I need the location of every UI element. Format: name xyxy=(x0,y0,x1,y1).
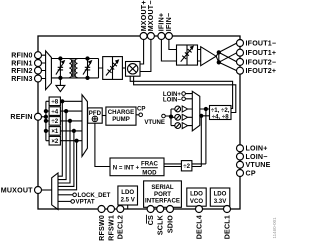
pin CS xyxy=(147,206,154,213)
pin RFIN2 xyxy=(35,67,42,74)
svg-text:MOD: MOD xyxy=(142,169,157,176)
N counter box xyxy=(110,158,164,176)
svg-text:DECL1: DECL1 xyxy=(223,215,231,239)
wire LO mux outputs xyxy=(200,109,210,116)
svg-text:VPTAT: VPTAT xyxy=(76,199,95,206)
svg-text:LOIN−: LOIN− xyxy=(163,97,182,104)
wire div2 to taps xyxy=(192,164,206,167)
wire CP stub xyxy=(136,114,139,116)
wire REFIN lead xyxy=(41,116,46,118)
node dots LO out xyxy=(204,107,208,111)
svg-text:DECL2: DECL2 xyxy=(117,215,125,239)
wire PFD to charge pump xyxy=(102,115,106,117)
svg-text:IFOUT1−: IFOUT1− xyxy=(246,39,277,47)
svg-text:MXOUT−: MXOUT− xyxy=(147,0,155,31)
wire IFIN+ to IF VGA xyxy=(161,39,176,61)
node VTUNE xyxy=(162,114,166,118)
IF VGA A2 xyxy=(177,45,198,65)
svg-text:SDIO: SDIO xyxy=(166,215,174,233)
node CP xyxy=(139,113,143,117)
svg-text:RFSW1: RFSW1 xyxy=(107,215,115,241)
wire PFD feedback xyxy=(95,123,110,166)
node amp out+ xyxy=(217,50,221,54)
wire VTUNE to VCO bus xyxy=(165,109,175,126)
wire amp outputs xyxy=(216,52,219,62)
pin DECL4 xyxy=(196,206,203,213)
op-amp VCO buffer B1 xyxy=(182,106,187,112)
wire mixer to MXOUT+ xyxy=(140,39,144,64)
svg-text:VTUNE: VTUNE xyxy=(144,119,165,126)
charge pump U3 xyxy=(106,107,136,125)
pin DECL2 xyxy=(117,206,124,213)
transformer T1 (balun) xyxy=(69,59,77,78)
wire A1 to mixer xyxy=(122,67,125,69)
svg-text:÷4, ÷8: ÷4, ÷8 xyxy=(212,113,229,120)
LDO VCO box xyxy=(187,188,206,206)
svg-text:IFOUT2−: IFOUT2− xyxy=(246,58,277,66)
node LOIN+ stub xyxy=(182,92,186,96)
svg-text:LOIN+: LOIN+ xyxy=(246,145,268,153)
node dots taps xyxy=(60,99,64,103)
svg-text:SCLK: SCLK xyxy=(157,214,165,235)
varactor shunt VC2 xyxy=(83,59,90,78)
node amp out- xyxy=(217,60,221,64)
svg-text:MUXOUT: MUXOUT xyxy=(1,186,33,194)
LDO 2.5V box xyxy=(118,186,138,205)
wire IFOUT crossover xyxy=(219,43,237,71)
pin IFOUT2- xyxy=(237,58,244,65)
ground xyxy=(56,78,65,92)
wire muxout xyxy=(41,189,52,191)
oscillator VCO2 xyxy=(175,114,181,120)
node dots VC1 xyxy=(58,56,62,60)
chip outline xyxy=(38,36,240,209)
wire N to div2 xyxy=(164,164,181,167)
multiplier x2 box xyxy=(49,136,60,145)
node LOCK_DET stub xyxy=(73,193,77,197)
svg-text:×2: ×2 xyxy=(51,138,59,145)
svg-text:2.5 V: 2.5 V xyxy=(121,196,136,203)
pin LOIN+ xyxy=(237,145,244,152)
ref select mux SW2 xyxy=(82,95,87,157)
svg-text:CHARGE: CHARGE xyxy=(108,109,134,116)
divider /2 box xyxy=(181,161,192,171)
svg-text:LDO: LDO xyxy=(121,189,134,196)
varactor shunt VC1 xyxy=(56,59,63,78)
wire monitor taps to muxout mux xyxy=(58,101,77,190)
multiplier x1 box xyxy=(49,127,60,136)
node LOIN- stub xyxy=(182,97,186,101)
svg-text:N = INT +: N = INT + xyxy=(113,165,140,172)
svg-text:IFOUT2+: IFOUT2+ xyxy=(246,67,277,75)
pin MXOUT- xyxy=(147,33,154,40)
divider /2 box xyxy=(49,117,60,126)
svg-text:IFIN−: IFIN− xyxy=(165,13,173,32)
RF input switch SW1 xyxy=(46,51,52,90)
svg-text:11460-001: 11460-001 xyxy=(272,217,277,239)
divider /4 box xyxy=(49,107,60,116)
node VPTAT stub xyxy=(71,200,75,204)
op-amp VCO buffer B3 xyxy=(182,123,187,129)
svg-text:RFSW0: RFSW0 xyxy=(98,215,106,241)
svg-text:RFIN3: RFIN3 xyxy=(11,75,33,83)
pin MXOUT+ xyxy=(140,33,147,40)
overline CS xyxy=(146,215,148,224)
pin RFSW1 xyxy=(108,206,115,213)
svg-text:÷4: ÷4 xyxy=(51,108,58,115)
pin IFIN+ xyxy=(158,33,165,40)
svg-text:RFIN0: RFIN0 xyxy=(11,52,33,60)
node dots VC2 xyxy=(85,56,89,60)
pin RFIN3 xyxy=(35,75,42,82)
svg-text:RFIN2: RFIN2 xyxy=(11,67,33,75)
wire buffers to LO mux xyxy=(188,109,193,126)
wire RF differential rails xyxy=(51,59,102,78)
wire RFIN pin leads xyxy=(41,55,45,78)
svg-text:÷8: ÷8 xyxy=(51,99,58,106)
pin SCLK xyxy=(157,206,164,213)
pin CP xyxy=(237,170,244,177)
svg-text:LDO: LDO xyxy=(190,191,203,198)
wire reference input bus xyxy=(46,101,49,140)
svg-text:CP: CP xyxy=(137,106,145,113)
pin MUXOUT xyxy=(35,187,42,194)
op-amp VCO buffer B2 xyxy=(182,114,187,120)
svg-text:VCO: VCO xyxy=(190,198,203,205)
svg-text:CS: CS xyxy=(147,215,155,225)
svg-text:DECL4: DECL4 xyxy=(195,215,203,239)
node dots ref bus xyxy=(44,109,48,113)
monitor mux SW4 xyxy=(52,173,58,210)
oscillator VCO3 xyxy=(175,123,181,129)
wire VGA to amp xyxy=(198,50,201,62)
serial port interface box xyxy=(144,181,182,207)
LO divider box xyxy=(210,106,232,120)
svg-text:REFIN: REFIN xyxy=(10,113,32,121)
pin DECL1 xyxy=(224,206,231,213)
svg-text:÷2: ÷2 xyxy=(183,163,190,170)
wire feedback taps down xyxy=(201,109,206,167)
oscillator VCO1 xyxy=(175,106,181,112)
svg-text:×1: ×1 xyxy=(51,128,59,135)
pin RFIN1 xyxy=(35,60,42,67)
PFD U2 xyxy=(88,108,103,123)
wire mixer to MXOUT- xyxy=(140,39,151,71)
svg-text:INTERFACE: INTERFACE xyxy=(145,198,180,205)
wire LO drive pair to mixer xyxy=(130,76,236,112)
pin RFSW0 xyxy=(98,206,105,213)
mixer M1 xyxy=(126,62,141,77)
wire ref outputs to mux xyxy=(60,101,82,140)
pin VTUNE xyxy=(237,161,244,168)
RF attenuator A1 xyxy=(103,57,123,80)
LDO 3.3V box xyxy=(210,188,230,206)
op-amp IF buffer U1 xyxy=(201,47,216,66)
pin SDIO xyxy=(167,206,174,213)
pin IFOUT1+ xyxy=(237,49,244,56)
pin IFOUT1- xyxy=(237,40,244,47)
LO select mux SW3 xyxy=(192,91,200,131)
svg-text:3.3V: 3.3V xyxy=(214,198,227,205)
pin IFIN- xyxy=(165,33,172,40)
svg-text:LDO: LDO xyxy=(214,191,227,198)
svg-text:FRAC: FRAC xyxy=(141,161,159,168)
svg-text:VTUNE: VTUNE xyxy=(246,161,271,169)
pin IFOUT2+ xyxy=(237,67,244,74)
pin RFIN0 xyxy=(35,52,42,59)
wire LOIN stubs to mux xyxy=(185,94,192,99)
svg-text:LOIN−: LOIN− xyxy=(246,153,268,161)
pin REFIN xyxy=(35,113,42,120)
pin LOIN- xyxy=(237,153,244,160)
wire IFIN- to IF VGA xyxy=(169,39,177,49)
svg-text:PUMP: PUMP xyxy=(112,116,130,123)
divider /8 box xyxy=(49,97,60,106)
svg-text:CP: CP xyxy=(246,169,256,177)
svg-text:IFOUT1+: IFOUT1+ xyxy=(246,49,277,57)
svg-text:÷2: ÷2 xyxy=(51,118,58,125)
